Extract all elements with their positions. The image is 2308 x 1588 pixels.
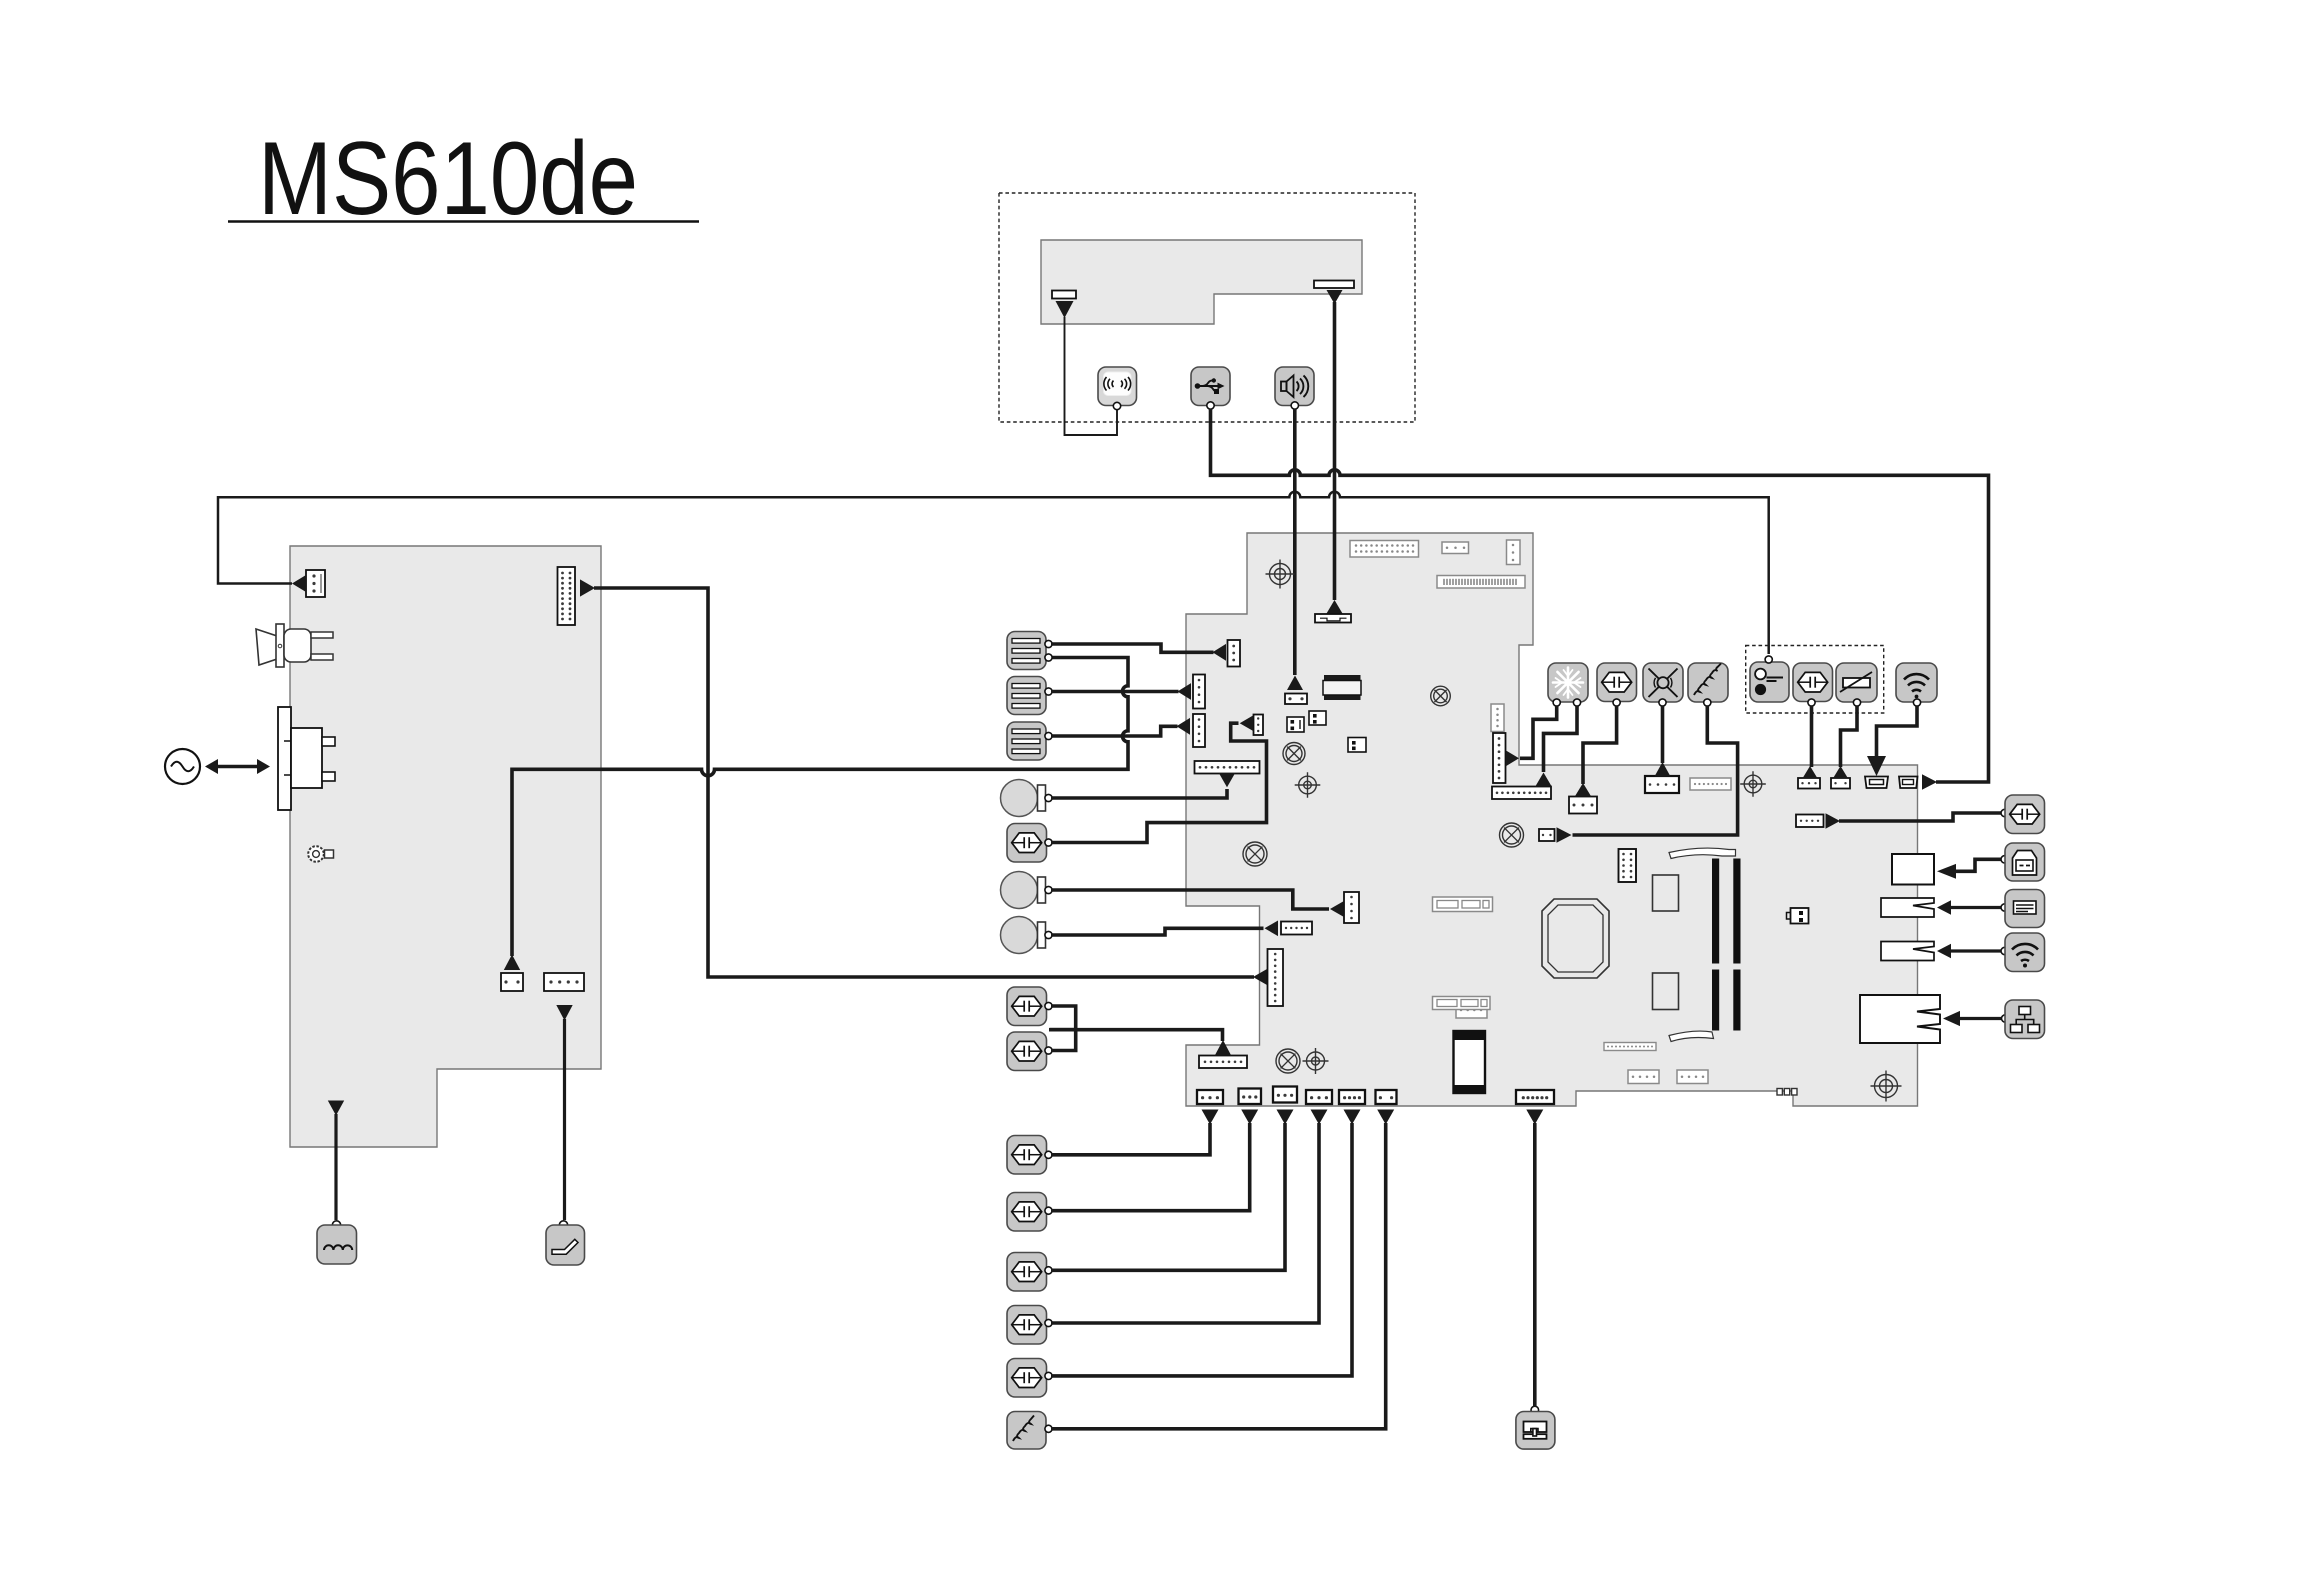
wire wifi B icon xyxy=(1950,949,2001,952)
icon solenoid 2 xyxy=(1001,872,1053,909)
connector snowflake 13-pin xyxy=(1492,787,1551,800)
connector speaker 2-pin xyxy=(1285,694,1307,705)
icon NFC touch area xyxy=(1098,367,1137,410)
wire speaker to engine board xyxy=(1293,409,1297,675)
connector bottom J4 4-pin xyxy=(1306,1090,1332,1104)
mount hole engine top-left xyxy=(1266,560,1295,589)
connector mini-USB-B xyxy=(1899,777,1918,789)
connector controller G2 4-pin xyxy=(1677,1070,1708,1084)
wire fuser coil xyxy=(1051,1123,1386,1429)
connector LVPS 2-pin xyxy=(501,973,523,991)
connector controller 2x5 xyxy=(1619,849,1637,882)
connector engine 4-pin vertical xyxy=(1491,704,1504,732)
wire motor 4 xyxy=(1051,1123,1210,1155)
icon tray 1 xyxy=(1007,632,1052,670)
wire motor 2 xyxy=(1050,1006,1076,1030)
connector tray2 sensor 5-pin xyxy=(1193,675,1205,709)
mount hole controller top xyxy=(1740,771,1766,797)
arrow from bottom J7 xyxy=(1526,1110,1543,1125)
wire duplex sensor xyxy=(1533,1123,1537,1407)
wire coil B xyxy=(1573,706,1738,835)
component 2-pad A xyxy=(1287,717,1304,732)
wire motor 3 xyxy=(1051,1030,1076,1051)
connector coil-B 2-pin xyxy=(1539,829,1555,841)
CPU xyxy=(1542,899,1609,978)
connector bottom J1 3-pin xyxy=(1197,1090,1223,1104)
icon thermistor xyxy=(1836,663,1877,706)
connector bottom J5 5-pin xyxy=(1339,1090,1365,1104)
connector engine FFC panel xyxy=(1315,614,1351,623)
connector engine 4-pin top xyxy=(1442,542,1469,554)
connector sensorbox motor 3-pin xyxy=(1798,778,1820,789)
icon motor 5 xyxy=(1007,1193,1052,1232)
icon duplex sensor xyxy=(1516,1406,1555,1449)
icon tray 2 xyxy=(1007,677,1052,715)
ground lug xyxy=(308,846,333,862)
arrow into mini-USB-B connector xyxy=(1922,774,1937,790)
icon tray 3 xyxy=(1007,722,1052,760)
icon motor 6 xyxy=(1007,1253,1052,1292)
dashed enclosure operator panel xyxy=(999,193,1415,422)
port ethernet xyxy=(1860,995,1940,1043)
wire USB-B icon xyxy=(1955,859,2001,871)
connector controller G1 4-pin xyxy=(1628,1070,1659,1084)
icon right motor xyxy=(2001,795,2045,834)
jumper 2x2 xyxy=(1787,908,1809,924)
icon solenoid 3 xyxy=(1001,917,1053,954)
wire LVPS AC header bus xyxy=(218,492,1769,654)
wire ethernet icon xyxy=(1959,1017,2002,1020)
exit sensor flag icon xyxy=(546,1221,585,1265)
connector SATA A xyxy=(1433,897,1493,912)
screw engine D xyxy=(1276,1049,1300,1073)
DIMM latch bottom xyxy=(1669,1031,1714,1041)
connector tray3 sensor 4-pin xyxy=(1193,714,1205,747)
wire to right motor icon xyxy=(1839,813,2001,821)
icon memory card xyxy=(2001,890,2045,928)
arrow into card slot B xyxy=(1937,944,1951,958)
DIMM slot B xyxy=(1733,859,1740,1031)
arrow into motorA connector xyxy=(1575,783,1591,797)
jumper 3-pad xyxy=(1777,1089,1797,1096)
wire solenoid 1 xyxy=(1051,789,1227,798)
connector panel-right xyxy=(1314,281,1354,289)
arrow from bottom J5 5-pin xyxy=(1344,1110,1361,1125)
wire LVPS to fuser xyxy=(334,1114,337,1220)
arrow into engine 19-pin connector xyxy=(1253,969,1267,985)
icon motor 3 xyxy=(1007,1032,1052,1071)
arrow into sensorbox motor connector xyxy=(1802,766,1817,779)
fuser icon xyxy=(317,1221,357,1264)
mount hole controller bottom-right xyxy=(1871,1071,1902,1102)
icon fan xyxy=(1643,663,1683,706)
wire USB to mini-USB port xyxy=(1211,409,1989,782)
icon laser snowflake xyxy=(1548,663,1588,706)
wire motor 5 xyxy=(1051,1123,1250,1211)
wire panel-left to NFC xyxy=(1065,317,1118,435)
arrow into duplex motor connector xyxy=(1240,715,1254,731)
arrow into speaker connector xyxy=(1287,676,1303,691)
arrow from bottom J4 4-pin xyxy=(1311,1110,1328,1125)
LVPS power supply board xyxy=(290,546,601,1147)
arrow into tray2 sensor xyxy=(1178,683,1192,700)
wire motor 1 xyxy=(1051,723,1267,842)
AC inlet xyxy=(278,707,335,810)
arrow panel-right xyxy=(1327,290,1343,304)
connector right motor 5-pin xyxy=(1796,815,1824,828)
wire motor 7 xyxy=(1051,1123,1319,1323)
chip U2 xyxy=(1653,973,1679,1010)
wire wifi A xyxy=(1877,706,1918,757)
screw engine A xyxy=(1431,686,1451,706)
arrow into fan connector xyxy=(1655,762,1671,777)
component 2-pad C xyxy=(1348,738,1366,753)
connector controller 8-pin top xyxy=(1690,778,1731,790)
wire motor 8 xyxy=(1051,1123,1352,1376)
arrow from LVPS 4-pin xyxy=(556,1005,572,1021)
title MS610de xyxy=(228,121,699,237)
wire LVPS 20-pin to engine board xyxy=(594,588,1254,977)
wire card icon xyxy=(1950,906,2001,909)
arrow into coil-B connector xyxy=(1557,827,1572,843)
arrow into LVPS 3-pin xyxy=(292,575,306,592)
connector above card 4-pin xyxy=(1456,1002,1487,1018)
connector engine 2x13 xyxy=(1350,541,1419,558)
connector main 10-pin xyxy=(1195,761,1260,774)
wire LVPS 4-pin to exit sensor xyxy=(563,1019,566,1220)
arrow into mini-USB-A xyxy=(1867,756,1886,776)
port card slot B xyxy=(1881,942,1934,961)
operator panel board xyxy=(1041,240,1362,324)
component 2-pad B xyxy=(1309,711,1326,725)
icon solenoid 1 xyxy=(1001,780,1053,817)
icon motor B xyxy=(1793,663,1833,706)
arrow into tray1 sensor xyxy=(1213,644,1227,661)
arrow into card slot A xyxy=(1937,900,1951,914)
wire tray3 sensor xyxy=(1051,726,1178,736)
connector LVPS 20-pin xyxy=(558,567,576,625)
arrow from bottom J6 3-pin xyxy=(1377,1110,1394,1125)
icon sensor xyxy=(1750,656,1789,702)
arrow into thermistor connector xyxy=(1833,766,1848,779)
double arrow AC to inlet xyxy=(205,759,270,774)
connector engine 8-pin vertical xyxy=(1493,733,1506,783)
icon speaker xyxy=(1275,367,1314,409)
connector SATA B xyxy=(1433,997,1491,1010)
arrow into solenoid3 connector xyxy=(1265,921,1279,937)
icon motor 1 xyxy=(1007,824,1052,863)
dashed enclosure sensors xyxy=(1746,646,1884,714)
screw controller A xyxy=(1500,823,1524,847)
connector tray1 sensor 3-pin xyxy=(1228,640,1241,667)
arrow into tray3 sensor xyxy=(1177,718,1191,735)
connector bottom J3 4-pin xyxy=(1273,1087,1297,1103)
connector solenoid2 4-pin xyxy=(1344,892,1359,923)
icon wifi B xyxy=(2001,933,2045,972)
connector engine 3-pin vertical top xyxy=(1507,540,1521,565)
icon motor 7 xyxy=(1007,1306,1052,1345)
arrow from bottom J3 4-pin xyxy=(1277,1110,1294,1125)
wire motor B xyxy=(1810,706,1814,767)
icon coil B xyxy=(1688,663,1728,706)
arrow from 8-pin vertical xyxy=(1506,751,1519,767)
port card slot A xyxy=(1881,898,1934,917)
connector engine 19-pin xyxy=(1268,949,1284,1006)
icon USB host xyxy=(1191,367,1230,409)
connector engine 7-pin bottom xyxy=(1199,1056,1247,1069)
arrow from LVPS 20-pin xyxy=(580,579,595,596)
AC mains source symbol xyxy=(165,749,200,784)
mount hole engine D xyxy=(1303,1048,1329,1074)
connector LVPS 4-pin xyxy=(544,973,584,991)
wire solenoid 2 xyxy=(1051,890,1329,909)
icon wifi A xyxy=(1896,663,1937,706)
arrow from LVPS board bottom xyxy=(328,1101,344,1116)
port USB-B xyxy=(1892,854,1934,885)
connector fan 4-pin xyxy=(1645,776,1679,793)
icon fuser coil xyxy=(1007,1412,1052,1450)
wire snowflake left xyxy=(1520,706,1557,758)
connector panel-left xyxy=(1052,291,1076,299)
wire snowflake right xyxy=(1544,706,1578,772)
connector bottom J6 3-pin xyxy=(1376,1090,1397,1104)
connector controller 14-pin xyxy=(1604,1043,1656,1051)
icon motor 4 xyxy=(1007,1136,1052,1175)
icon motor 2 xyxy=(1007,987,1052,1026)
DIMM slot A xyxy=(1712,859,1719,1031)
wire solenoid 3 xyxy=(1051,928,1264,935)
wire tray2 sensor xyxy=(1051,690,1179,694)
arrow into solenoid2 connector xyxy=(1330,901,1344,917)
card connector vertical xyxy=(1454,1031,1486,1093)
arrow panel-left xyxy=(1056,301,1074,318)
connector mini-USB-A xyxy=(1865,777,1888,789)
wire fan xyxy=(1661,706,1665,763)
connector duplex motor 4-pin xyxy=(1254,715,1264,736)
mount hole engine B xyxy=(1295,772,1321,798)
arrow from right motor connector xyxy=(1826,813,1841,829)
DIMM latch top xyxy=(1669,848,1736,858)
wire motor feed to engine 7-pin xyxy=(1049,1030,1223,1041)
screw engine B xyxy=(1283,743,1305,765)
wire tray1 sensor xyxy=(1051,644,1214,652)
svg-text:MS610de: MS610de xyxy=(258,121,638,237)
connector motorA 4-pin xyxy=(1569,797,1597,814)
wire LVPS 2-pin to tray1 pick solenoid xyxy=(512,658,1128,957)
icon ethernet xyxy=(2002,1000,2045,1039)
connector solenoid3 5-pin xyxy=(1281,922,1312,935)
arrow from LVPS 2-pin xyxy=(504,955,520,971)
screw engine C xyxy=(1243,842,1267,866)
icon motor 8 xyxy=(1007,1359,1052,1398)
icon USB-B xyxy=(2001,843,2045,881)
arrow into engine 7-pin xyxy=(1215,1040,1231,1056)
chip U1 xyxy=(1653,875,1679,911)
rocker power switch xyxy=(256,624,333,667)
wire panel-right to engine FFC xyxy=(1333,302,1337,600)
connector engine FFC long xyxy=(1437,576,1525,589)
arrow from main 10-pin xyxy=(1219,773,1235,787)
connector bottom J2 4-pin xyxy=(1239,1089,1262,1105)
arrow into ethernet port xyxy=(1943,1011,1960,1026)
wire motor 6 xyxy=(1051,1123,1285,1270)
connector bottom J7 7-pin xyxy=(1516,1090,1554,1104)
icon motor A xyxy=(1597,663,1637,706)
connector thermistor 2-pin xyxy=(1831,778,1850,789)
wire motor A xyxy=(1583,706,1617,784)
arrow into 13-pin xyxy=(1535,773,1551,787)
arrow into USB-B port xyxy=(1937,864,1956,879)
connector LVPS 3-pin AC xyxy=(306,570,325,597)
engine and controller board xyxy=(1186,533,1918,1106)
transformer component xyxy=(1323,675,1361,700)
arrow from bottom J2 4-pin xyxy=(1241,1110,1258,1125)
arrow from bottom J1 3-pin xyxy=(1202,1110,1219,1125)
arrow into FFC connector xyxy=(1327,600,1343,614)
wire thermistor xyxy=(1841,706,1858,767)
